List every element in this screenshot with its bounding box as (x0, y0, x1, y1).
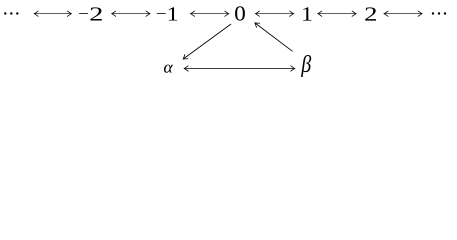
wire arrow6 2-cdots (384, 13, 422, 15)
node 1 (303, 7, 311, 20)
wire arrow1 cdots-(-2) (34, 13, 71, 15)
node alpha (164, 65, 173, 73)
wire arrow alpha-beta (184, 68, 295, 70)
wire diagonal 0 to alpha (183, 24, 231, 59)
node beta (301, 55, 311, 77)
node -2 (79, 12, 88, 15)
node 0 (235, 6, 245, 20)
wire arrow3 (-1)-0 (191, 13, 229, 15)
node 2 (365, 7, 376, 20)
cdots left (4, 12, 18, 14)
wire arrow4 0-1 (255, 13, 293, 15)
wire arrow5 1-2 (318, 13, 356, 15)
wire diagonal beta to 0 (255, 23, 293, 51)
node -1 (157, 12, 166, 15)
wire arrow2 (-2)-(-1) (112, 13, 150, 15)
cdots right (432, 12, 446, 14)
